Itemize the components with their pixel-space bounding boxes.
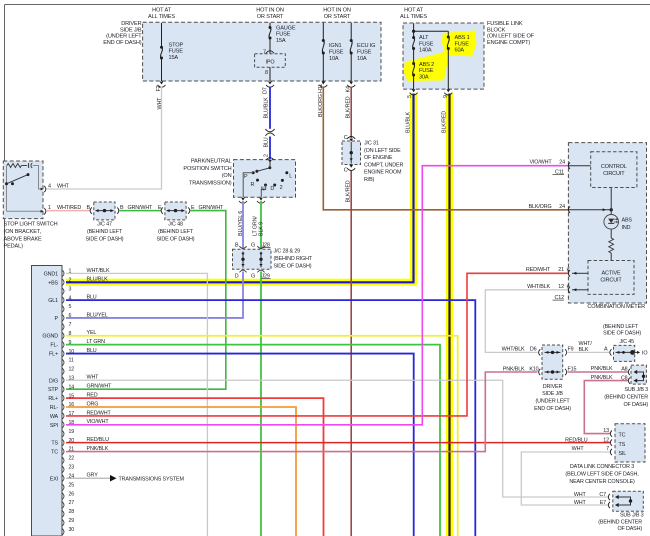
svg-text:21: 21: [558, 267, 564, 273]
svg-text:(ON LEFT SIDE OF: (ON LEFT SIDE OF: [487, 34, 535, 40]
contact R: [256, 179, 259, 182]
svg-text:OF DASH): OF DASH): [623, 402, 648, 408]
wire GRN/WHT J/C 47 to J/C 48: [120, 210, 162, 212]
wire RED/BLU ABS pin20 TS right to data link connector TS: [66, 442, 611, 444]
svg-text:SIDE J/B: SIDE J/B: [120, 27, 142, 33]
svg-text:11: 11: [69, 358, 74, 364]
svg-text:FUSE: FUSE: [419, 68, 434, 74]
driver side J/B fuse box: [143, 22, 381, 81]
wire VIO/WHT ABS pin18 SPI right, up, to meter pin 24 C11: [66, 166, 568, 425]
svg-text:BLOCK: BLOCK: [487, 27, 506, 33]
wire LT GRN/BLK pin9 of PN switch to J/C 29: [260, 201, 262, 249]
svg-text:SPI: SPI: [50, 423, 58, 429]
svg-text:(BEHIND LEFT: (BEHIND LEFT: [87, 229, 123, 235]
svg-text:TC: TC: [51, 450, 58, 456]
svg-text:ALL TIMES: ALL TIMES: [400, 14, 427, 20]
svg-text:GRN/WHT: GRN/WHT: [128, 205, 154, 211]
svg-text:PARK/NEUTRAL: PARK/NEUTRAL: [191, 159, 232, 165]
svg-text:TRANSMISSIONS SYSTEM: TRANSMISSIONS SYSTEM: [119, 476, 185, 482]
svg-text:GRN/WHT: GRN/WHT: [199, 205, 225, 211]
junction node at ABS IND feed: [610, 208, 613, 211]
wire IPO to box bottom: [269, 67, 271, 81]
svg-text:F15: F15: [568, 366, 577, 372]
switch arm: [7, 175, 29, 184]
connector exit 9: [446, 89, 450, 92]
connector exit 8/D7: [268, 82, 272, 85]
J/C 45 box: [614, 345, 635, 361]
svg-text:TS: TS: [619, 442, 626, 448]
svg-text:5: 5: [407, 95, 413, 98]
fusible link block box: [403, 23, 484, 89]
svg-text:STP: STP: [48, 387, 59, 393]
svg-text:STOP LIGHT SWITCH: STOP LIGHT SWITCH: [4, 222, 58, 228]
J/B K10-F15 internal: [545, 371, 561, 373]
svg-text:J/C 47: J/C 47: [97, 221, 112, 227]
svg-text:A: A: [604, 347, 608, 353]
svg-text:B: B: [120, 205, 124, 211]
wire BLU ABS pin10 FL+ right then down off-page: [66, 354, 414, 536]
svg-text:RED/WHT: RED/WHT: [87, 410, 112, 416]
svg-text:7: 7: [606, 446, 609, 452]
svg-text:PNK/BLK: PNK/BLK: [591, 375, 613, 381]
wire WHT ABS pin13 D/G right, down, to SUB J/B3 C7: [66, 380, 609, 497]
svg-text:WA: WA: [50, 414, 59, 420]
wire WHT/BLK ABS pin1 GND1 right then down off-page: [66, 273, 207, 536]
svg-text:ALT: ALT: [419, 35, 429, 41]
contact D: [273, 184, 276, 187]
svg-text:FUSE: FUSE: [419, 41, 434, 47]
svg-text:SUB J/B 3: SUB J/B 3: [620, 512, 644, 518]
svg-text:15: 15: [69, 393, 75, 399]
svg-text:7: 7: [263, 50, 266, 56]
J/C 48 box: [165, 202, 186, 220]
SUB J/B3 lower internal: [608, 494, 610, 500]
resistor below ABS IND: [610, 229, 612, 238]
svg-text:YEL: YEL: [87, 330, 97, 336]
J/C 48 internals: [167, 210, 185, 212]
connector exit H11: [321, 82, 325, 85]
svg-text:(BEHIND CENTER: (BEHIND CENTER: [598, 519, 642, 525]
svg-text:VIO/WHT: VIO/WHT: [87, 419, 110, 425]
svg-text:COMPT, UNDER: COMPT, UNDER: [364, 162, 403, 168]
svg-text:HOT IN ON: HOT IN ON: [323, 7, 351, 13]
svg-text:WHT: WHT: [574, 492, 587, 498]
svg-text:16: 16: [69, 402, 75, 408]
svg-text:D7: D7: [263, 87, 269, 94]
J/C 47 box: [94, 202, 115, 220]
svg-text:R: R: [250, 182, 254, 188]
svg-text:FL-: FL-: [50, 343, 58, 349]
wire pivot to pin 1: [6, 166, 8, 212]
svg-text:OF ENGINE: OF ENGINE: [364, 155, 393, 161]
svg-text:1: 1: [48, 205, 51, 211]
svg-text:15A: 15A: [276, 38, 286, 44]
in-line connector on BLU/BLK: [265, 129, 274, 132]
SUB J/B3 upper internal: [628, 369, 630, 375]
svg-text:IND: IND: [622, 225, 631, 231]
svg-text:D: D: [235, 274, 239, 280]
J/C 47 internals: [96, 210, 114, 212]
svg-text:25: 25: [69, 482, 75, 488]
wire PNK/BLK ABS pin21 TC right, up, to driver J/B K10: [66, 372, 538, 452]
DLC3 pin brackets: [610, 430, 612, 436]
svg-text:B: B: [235, 243, 239, 249]
svg-text:GRN/WHT: GRN/WHT: [87, 384, 113, 390]
contact 2: [281, 179, 284, 182]
svg-text:END OF DASH): END OF DASH): [534, 406, 571, 412]
contact N: [264, 184, 267, 187]
svg-text:(UNDER LEFT: (UNDER LEFT: [536, 399, 571, 405]
svg-text:WHT: WHT: [157, 97, 163, 110]
wire PNK/BLK SUB J/B3 C8 left, down, to DLC3 TC: [584, 381, 628, 434]
svg-text:E: E: [158, 205, 162, 211]
connector exit F2: [160, 82, 164, 85]
svg-text:FUSE: FUSE: [276, 32, 291, 38]
switch contact arc: [31, 163, 32, 168]
svg-text:BLU: BLU: [87, 348, 97, 354]
wire branch to ABS1 fuse: [414, 30, 449, 32]
svg-text:14: 14: [69, 384, 75, 390]
page border frame: [5, 4, 650, 6]
svg-text:P: P: [55, 316, 59, 322]
svg-text:WHT/BLK: WHT/BLK: [527, 284, 550, 290]
svg-text:G: G: [251, 274, 255, 280]
svg-text:24: 24: [69, 473, 75, 479]
svg-text:13: 13: [603, 428, 609, 434]
IPO relay box: [255, 54, 286, 68]
svg-text:C: C: [344, 168, 348, 174]
pin 1 bracket: [44, 208, 46, 214]
J/C 31 exit C: [349, 165, 353, 168]
wire BLU ABS pin4 GL1 right then down off-page: [66, 300, 475, 536]
switch arm to P: [257, 168, 270, 172]
svg-text:ABOVE BRAKE: ABOVE BRAKE: [4, 236, 43, 242]
svg-text:J/C 48: J/C 48: [168, 221, 183, 227]
svg-text:F2: F2: [156, 85, 162, 91]
meter pin 12 arrow to active circuit: [572, 289, 588, 291]
svg-text:R/B): R/B): [364, 177, 375, 183]
exit pin 6: [241, 198, 245, 201]
svg-text:POSITION SWITCH: POSITION SWITCH: [183, 166, 231, 172]
wire pin N to exit 9: [261, 185, 265, 197]
svg-text:PEDAL): PEDAL): [4, 244, 24, 250]
wire BLK/RED highlighted core (ABS1 fuse down off-page): [448, 94, 450, 536]
svg-text:C: C: [344, 135, 348, 141]
svg-text:SIDE J/B: SIDE J/B: [542, 391, 563, 397]
fuse STOP 15A: [161, 23, 163, 47]
svg-text:27: 27: [69, 500, 75, 506]
control circuit box: [591, 152, 637, 188]
svg-text:GL1: GL1: [48, 298, 58, 304]
svg-text:8: 8: [265, 70, 268, 76]
svg-text:7: 7: [69, 322, 72, 328]
junction node ALT/ABS1: [412, 30, 415, 33]
svg-text:END OF DASH): END OF DASH): [103, 40, 142, 46]
svg-text:FUSIBLE LINK: FUSIBLE LINK: [487, 21, 523, 27]
wire ORG ABS pin16 RL- right then down off-page: [66, 407, 296, 536]
svg-text:13: 13: [69, 375, 75, 381]
pin 4 bracket: [44, 186, 46, 192]
data link connector 3 box: [615, 424, 645, 462]
svg-text:D: D: [270, 186, 274, 192]
wire WHT DLC3 SIL left, down, to SUB J/B3 E7: [521, 452, 610, 505]
svg-text:FUSE: FUSE: [169, 49, 184, 55]
svg-text:CIRCUIT: CIRCUIT: [600, 278, 622, 284]
J/C 31 box: [342, 141, 361, 165]
svg-text:HOT AT: HOT AT: [152, 7, 172, 13]
svg-text:ALL TIMES: ALL TIMES: [148, 14, 175, 20]
svg-text:ORG: ORG: [87, 401, 99, 407]
svg-text:30: 30: [69, 527, 75, 533]
svg-text:N: N: [261, 187, 265, 193]
svg-text:RED/BLU: RED/BLU: [565, 438, 588, 444]
svg-text:(UNDER LEFT: (UNDER LEFT: [106, 34, 142, 40]
svg-text:DRIVER: DRIVER: [121, 21, 141, 27]
svg-text:D/G: D/G: [49, 378, 58, 384]
fuse IGN1 10A: [322, 23, 324, 41]
svg-text:(BEHIND RIGHT: (BEHIND RIGHT: [274, 256, 313, 262]
svg-text:18: 18: [69, 420, 75, 426]
svg-text:RED: RED: [87, 392, 98, 398]
svg-text:24: 24: [559, 204, 565, 210]
svg-text:(ON: (ON: [222, 173, 232, 179]
entry stub: [269, 161, 271, 168]
svg-text:EXI: EXI: [50, 476, 58, 482]
svg-text:WHT/RED: WHT/RED: [57, 205, 81, 211]
svg-text:ENGINE ROOM: ENGINE ROOM: [364, 170, 402, 176]
svg-text:4: 4: [48, 183, 51, 189]
wire LT GRN ABS pin9 FL- right then down off-page: [66, 345, 440, 536]
svg-text:K10: K10: [529, 366, 538, 372]
svg-text:C7: C7: [599, 492, 606, 498]
svg-text:BLK/ORG: BLK/ORG: [529, 204, 552, 210]
svg-text:22: 22: [69, 456, 75, 462]
sub J/B 3 box (upper): [631, 365, 646, 384]
svg-text:PNK/BLK: PNK/BLK: [503, 366, 525, 372]
contact L: [285, 171, 288, 174]
wire BLU/YEL J/C28 D to ABS pin 6 P: [66, 272, 243, 318]
svg-text:OR START: OR START: [324, 14, 351, 20]
svg-text:FUSE: FUSE: [329, 49, 344, 55]
svg-text:FUSE: FUSE: [357, 49, 372, 55]
connector exit 5: [412, 89, 416, 92]
svg-text:COMBINATION METER: COMBINATION METER: [587, 304, 645, 310]
contact P: [252, 171, 255, 174]
svg-text:RL-: RL-: [50, 405, 59, 411]
svg-text:4: 4: [69, 295, 72, 301]
svg-text:(ON BRACKET,: (ON BRACKET,: [4, 229, 42, 235]
svg-text:D6: D6: [530, 347, 537, 353]
wire WHT/BLK J/B F9 to J/C 45 A: [568, 351, 610, 353]
svg-text:E7: E7: [600, 500, 606, 506]
wire control circuit down to ABS IND: [610, 188, 612, 215]
highlight band BLU/BLK wire horizontal to pin 2: [66, 279, 417, 286]
wire YEL ABS pin8 GGND right then down off-page: [66, 336, 458, 536]
wire to pin 4: [33, 166, 43, 190]
exit pin 9 (N): [259, 198, 263, 201]
svg-text:12: 12: [69, 367, 75, 373]
svg-text:OR START: OR START: [257, 14, 284, 20]
wire BLK/RED ECU IG down to J/C 31: [350, 87, 352, 139]
svg-text:SUB J/B 3: SUB J/B 3: [624, 387, 648, 393]
wire BLU to park/neutral switch pin 2: [269, 137, 271, 160]
svg-text:2: 2: [280, 185, 283, 191]
svg-text:IO: IO: [642, 351, 647, 357]
svg-text:(BEHIND CENTER: (BEHIND CENTER: [604, 394, 648, 400]
svg-text:TS: TS: [51, 441, 58, 447]
svg-text:J/C 28 & 29: J/C 28 & 29: [274, 249, 301, 255]
svg-text:19: 19: [69, 429, 75, 435]
svg-text:OF DASH): OF DASH): [617, 526, 642, 532]
svg-text:WHT/BLK: WHT/BLK: [87, 268, 110, 274]
J/C 28 and 29 box: [233, 249, 272, 269]
svg-text:20: 20: [69, 438, 75, 444]
wire WHT/RED stop light switch pin1 to J/C 47: [47, 210, 91, 212]
svg-text:J/C 45: J/C 45: [619, 339, 634, 345]
svg-text:A8: A8: [621, 366, 627, 372]
svg-text:K4: K4: [346, 86, 352, 92]
svg-text:RED/BLU: RED/BLU: [87, 437, 110, 443]
svg-text:SIDE OF DASH): SIDE OF DASH): [603, 330, 641, 336]
park/neutral switch contacts: [268, 166, 271, 169]
svg-text:BLU/YEL 6: BLU/YEL 6: [238, 211, 244, 236]
svg-text:(BELOW LEFT SIDE OF DASH,: (BELOW LEFT SIDE OF DASH,: [565, 471, 639, 477]
J/C 45 internal: [610, 349, 612, 355]
svg-text:P: P: [244, 174, 248, 180]
svg-text:HOT AT: HOT AT: [404, 7, 424, 13]
svg-text:140A: 140A: [419, 48, 432, 54]
svg-text:C8: C8: [621, 376, 628, 382]
highlight band BLU/BLK wire vertical: [410, 94, 417, 286]
wire WHT/BLK meter pin12 C12 left then down to J/B D6: [485, 290, 568, 353]
wire LT GRN/BLK J/C29 G down off-page: [260, 272, 262, 536]
highlight band BLK/RED wire vertical: [446, 94, 453, 536]
J/C 29 internals: [260, 252, 262, 268]
svg-text:3: 3: [69, 286, 72, 292]
svg-text:BLK/RED: BLK/RED: [346, 180, 352, 202]
svg-text:HOT IN ON: HOT IN ON: [256, 7, 284, 13]
svg-text:L: L: [289, 173, 292, 179]
svg-text:BLK/RED: BLK/RED: [442, 111, 448, 133]
svg-text:SIDE OF DASH): SIDE OF DASH): [157, 236, 195, 242]
svg-text:WHT: WHT: [572, 446, 585, 452]
svg-text:G: G: [251, 243, 255, 249]
svg-text:BLU: BLU: [87, 295, 97, 301]
wire WHT stop fuse to stop light switch pin 4: [47, 87, 162, 190]
wire BLU/YEL pin6 of PN switch to J/C 28: [242, 201, 244, 249]
svg-text:E: E: [191, 205, 195, 211]
fuse GAUGE 15A: [269, 23, 271, 28]
svg-text:B: B: [87, 205, 91, 211]
wire BLU/BLK D7 down: [269, 87, 271, 129]
svg-text:(ON LEFT SIDE: (ON LEFT SIDE: [364, 148, 401, 154]
svg-text:12: 12: [603, 438, 609, 444]
svg-text:DATA LINK CONNECTOR 3: DATA LINK CONNECTOR 3: [570, 464, 634, 470]
svg-text:23: 23: [69, 465, 75, 471]
svg-text:RED/WHT: RED/WHT: [526, 267, 551, 273]
wire RED ABS pin15 RL+ right then down off-page: [66, 398, 324, 536]
stop light switch box: [3, 161, 43, 219]
svg-text:9: 9: [443, 95, 449, 98]
svg-text:H11: H11: [318, 84, 324, 93]
sub J/B 3 box (lower): [613, 491, 644, 511]
svg-text:SIDE OF DASH): SIDE OF DASH): [86, 236, 124, 242]
active circuit box: [588, 261, 634, 295]
park/neutral position switch box: [234, 160, 296, 198]
svg-text:28: 28: [69, 509, 75, 515]
wire BLU/BLK highlighted core (ABS2 fuse to ABS pin2 +BS): [66, 94, 414, 283]
svg-text:29: 29: [69, 518, 75, 524]
svg-text:TRANSMISSION): TRANSMISSION): [189, 180, 232, 186]
svg-text:26: 26: [69, 491, 75, 497]
svg-text:SIL: SIL: [619, 451, 627, 457]
svg-text:60A: 60A: [455, 48, 465, 54]
connector exit K4: [349, 82, 353, 85]
svg-text:8: 8: [69, 331, 72, 337]
wire PNK/BLK J/B F15 to SUB J/B3 A8: [568, 371, 629, 373]
svg-text:ABS 1: ABS 1: [455, 35, 470, 41]
fuse ABS 2 30A: [412, 62, 415, 65]
resistor in stop light switch: [7, 164, 21, 168]
svg-text:BLK: BLK: [579, 347, 589, 353]
svg-text:ABS 2: ABS 2: [419, 62, 434, 68]
svg-text:NEAR CENTER CONSOLE): NEAR CENTER CONSOLE): [569, 479, 635, 485]
svg-text:9: 9: [69, 340, 72, 346]
svg-text:BLU/BLK: BLU/BLK: [405, 111, 411, 133]
meter pin 21 arrow to active circuit: [572, 272, 588, 274]
svg-text:CONTROL: CONTROL: [601, 164, 627, 170]
svg-text:BLU/BLK: BLU/BLK: [263, 97, 269, 119]
pin 7 arc into IPO: [266, 51, 274, 53]
svg-text:IPO: IPO: [266, 60, 275, 66]
svg-text:STOP: STOP: [169, 42, 184, 48]
svg-text:J/C 31: J/C 31: [364, 141, 379, 147]
svg-text:21: 21: [69, 447, 75, 453]
svg-text:DRIVER: DRIVER: [543, 384, 563, 390]
svg-text:WHT/BLK: WHT/BLK: [502, 347, 525, 353]
fuse ALT 140A: [413, 23, 415, 37]
svg-text:12: 12: [558, 284, 564, 290]
svg-text:FUSE: FUSE: [455, 41, 470, 47]
fuse ABS 1 60A: [447, 31, 449, 37]
svg-text:(BEHIND LEFT: (BEHIND LEFT: [158, 229, 194, 235]
wire GRY ABS pin24 EXI to transmissions system: [66, 477, 110, 479]
svg-text:GGND: GGND: [42, 334, 58, 340]
svg-text:10: 10: [69, 349, 75, 355]
svg-text:BLK/RED: BLK/RED: [346, 96, 352, 118]
ABS actuator/ECU connector box: [32, 266, 63, 536]
J/B D6-F9 internal: [545, 351, 561, 353]
svg-text:WHT: WHT: [574, 500, 587, 506]
svg-text:WHT: WHT: [57, 183, 70, 189]
wire GRN/WHT J/C 48 to ABS pin 14 STP: [66, 211, 226, 390]
meter BLK/ORG pin 24 arrow to ABS IND node: [568, 209, 611, 211]
svg-text:ACTIVE: ACTIVE: [602, 270, 621, 276]
svg-text:TC: TC: [619, 433, 626, 439]
svg-text:CIRCUIT: CIRCUIT: [603, 171, 625, 177]
svg-text:2: 2: [263, 154, 269, 157]
svg-text:ABS: ABS: [622, 217, 633, 223]
svg-text:WHT: WHT: [87, 375, 100, 381]
svg-text:GND1: GND1: [44, 271, 59, 277]
J/C 31 entry C: [349, 139, 353, 142]
svg-text:SIDE OF DASH): SIDE OF DASH): [274, 264, 312, 270]
wire P contact to pin 6 exit: [243, 173, 253, 197]
fuse ECU IG 10A: [350, 23, 352, 41]
svg-text:17: 17: [69, 411, 75, 417]
svg-text:10A: 10A: [329, 56, 339, 62]
svg-text:ECU IG: ECU IG: [357, 43, 375, 49]
